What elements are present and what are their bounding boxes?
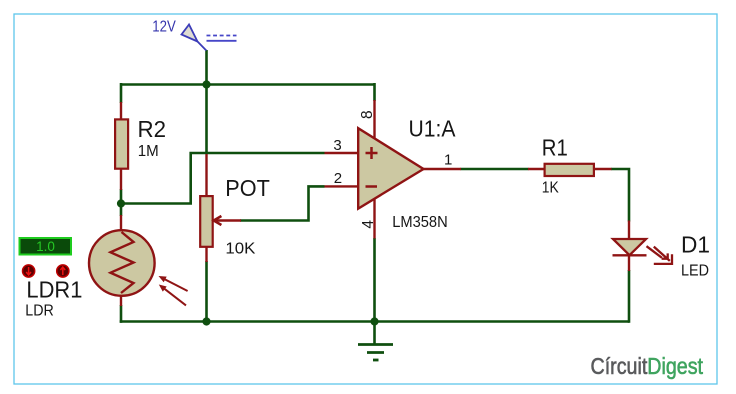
svg-text:LED: LED — [681, 263, 709, 280]
svg-text:1M: 1M — [138, 143, 159, 160]
svg-text:3: 3 — [333, 137, 341, 154]
svg-text:1: 1 — [444, 151, 452, 168]
svg-text:R2: R2 — [138, 116, 167, 142]
svg-text:LDR1: LDR1 — [26, 277, 82, 303]
svg-text:8: 8 — [359, 110, 376, 119]
svg-text:12V: 12V — [152, 18, 176, 35]
svg-text:2: 2 — [334, 170, 342, 187]
svg-text:LDR: LDR — [25, 303, 54, 320]
svg-text:D1: D1 — [681, 232, 710, 258]
svg-text:POT: POT — [225, 175, 269, 201]
svg-text:CírcuitDigest: CírcuitDigest — [591, 353, 704, 379]
svg-text:4: 4 — [360, 220, 377, 229]
svg-text:10K: 10K — [225, 241, 255, 258]
svg-text:U1:A: U1:A — [409, 115, 457, 141]
svg-text:1K: 1K — [542, 179, 559, 196]
svg-text:1.0: 1.0 — [36, 239, 55, 254]
svg-text:LM358N: LM358N — [392, 214, 448, 231]
svg-text:R1: R1 — [542, 135, 568, 161]
